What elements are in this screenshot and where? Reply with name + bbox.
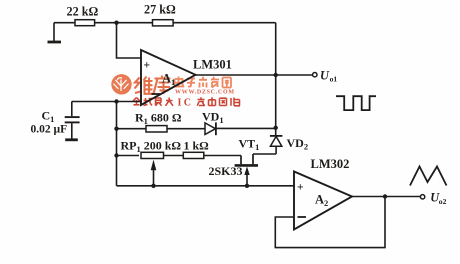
second watermark line: 全球最大IC采购网站 [133,98,173,106]
diode VD1 [202,110,224,136]
svg-text:27 kΩ: 27 kΩ [144,3,176,17]
node: R1 row left [114,127,118,131]
电子市场网 glyphs [175,77,232,88]
wire: R1 row [117,128,147,130]
wire: 22k to 27k [95,22,153,24]
square wave symbol [336,96,376,110]
potentiometer RP1 200 kΩ [121,139,182,186]
resistor 1 kΩ [183,139,209,159]
node: inverting input junction [114,99,118,103]
capacitor C1 0.02 µF [31,102,80,140]
wire: RP1 to 1k [164,155,183,157]
svg-text:1 kΩ: 1 kΩ [184,139,210,153]
node: junction 22k/27k [114,21,118,25]
wire: 1k to VT1 source [204,155,241,157]
维 glyph [135,77,154,94]
ground (left of 22k) [48,23,62,42]
terminal Uo1 [313,68,338,83]
wire: A2 feedback loop [275,197,385,248]
terminal Uo2 [420,191,446,206]
ground (below C1) [65,138,78,141]
wire: ground to 22k resistor [54,22,75,24]
transistor VT1 (2SK33 JFET) [209,137,260,186]
svg-text:+: + [144,60,151,72]
svg-text:RP1 200 kΩ: RP1 200 kΩ [121,139,182,155]
resistor 27 kΩ [144,3,176,26]
wire: 27k to top-right corner [173,22,276,24]
node: VT1 gate junction [245,184,249,188]
svg-text:+: + [297,182,304,194]
wire: bottom rail to A2 + input [117,185,295,187]
svg-text:R1 680 Ω: R1 680 Ω [135,111,182,127]
wire: A1 - input from C1 node [72,101,141,103]
svg-text:2SK33: 2SK33 [209,164,243,178]
svg-text:WWW.DZSC.COM: WWW.DZSC.COM [175,90,235,96]
svg-text:IC: IC [178,98,194,109]
库 glyph [154,76,171,94]
svg-text:o1: o1 [330,75,338,84]
svg-text:o2: o2 [439,197,447,206]
op-amp U2 LM302 [294,157,352,230]
diode VD2 [270,136,308,154]
wire: R1 to VD1 [167,128,205,130]
svg-text:U: U [320,68,330,82]
wire: junction down to A1 + input [117,23,142,58]
svg-text:LM302: LM302 [311,157,350,171]
node: A2 output junction [383,194,387,198]
resistor R1 680 Ω [135,111,182,133]
svg-text:22 kΩ: 22 kΩ [67,5,99,19]
node: RP1 wiper junction [151,184,155,188]
svg-text:0.02 µF: 0.02 µF [31,124,68,136]
wire: VD1 to right vertical [216,127,276,129]
node: VD1/VD2 junction [274,126,278,130]
wire: left vertical (inverting node down to bottom rail) [116,102,118,186]
op-amp U1 LM301 [141,50,232,105]
wire: RP1 row left segment [117,155,140,157]
wire: A1 output [196,74,313,76]
svg-text:LM301: LM301 [193,58,232,72]
node: RP1 row left [114,153,118,157]
triangle wave symbol [410,167,447,186]
resistor 22 kΩ [67,5,99,26]
wire: right vertical down to VD2 [275,23,277,136]
wire: VD2 to VT1 drain [253,153,276,155]
wire: A2 output [352,196,420,198]
node: output/right vertical [274,73,278,77]
